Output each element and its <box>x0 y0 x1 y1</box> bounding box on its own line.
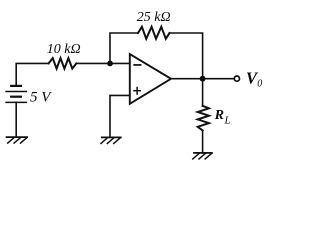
battery V1 5V <box>6 86 26 103</box>
resistor R2 25k <box>138 27 170 39</box>
terminal Vo open circle <box>234 76 239 81</box>
svg-text:L: L <box>224 116 231 127</box>
svg-text:25 kΩ: 25 kΩ <box>137 10 171 25</box>
wire battery bottom to ground <box>15 102 17 137</box>
resistor RL vertical <box>198 106 209 131</box>
ground middle <box>101 137 121 143</box>
svg-text:R: R <box>214 108 224 123</box>
svg-text:5 V: 5 V <box>30 89 52 105</box>
wire noninverting input to ground <box>110 95 130 137</box>
op-amp plus sign <box>134 88 140 95</box>
svg-text:10 kΩ: 10 kΩ <box>47 42 81 57</box>
wire feedback up left <box>110 33 138 63</box>
node A junction dot inverting input <box>107 61 113 67</box>
wire 10k to op-amp inverting input <box>76 62 130 64</box>
op-amp minus sign <box>134 64 140 66</box>
node B output junction dot <box>200 76 206 82</box>
ground right <box>193 153 212 159</box>
wire RL to ground <box>202 131 204 153</box>
resistor R1 10k <box>49 58 77 69</box>
wire output node down to RL <box>202 79 204 106</box>
op-amp U1 triangle <box>130 54 171 104</box>
wire battery top to 10k resistor <box>16 63 48 85</box>
svg-text:0: 0 <box>257 79 262 90</box>
wire op-amp output to terminal <box>171 78 234 80</box>
wire feedback right down to output node <box>170 33 203 79</box>
ground left <box>7 137 28 143</box>
